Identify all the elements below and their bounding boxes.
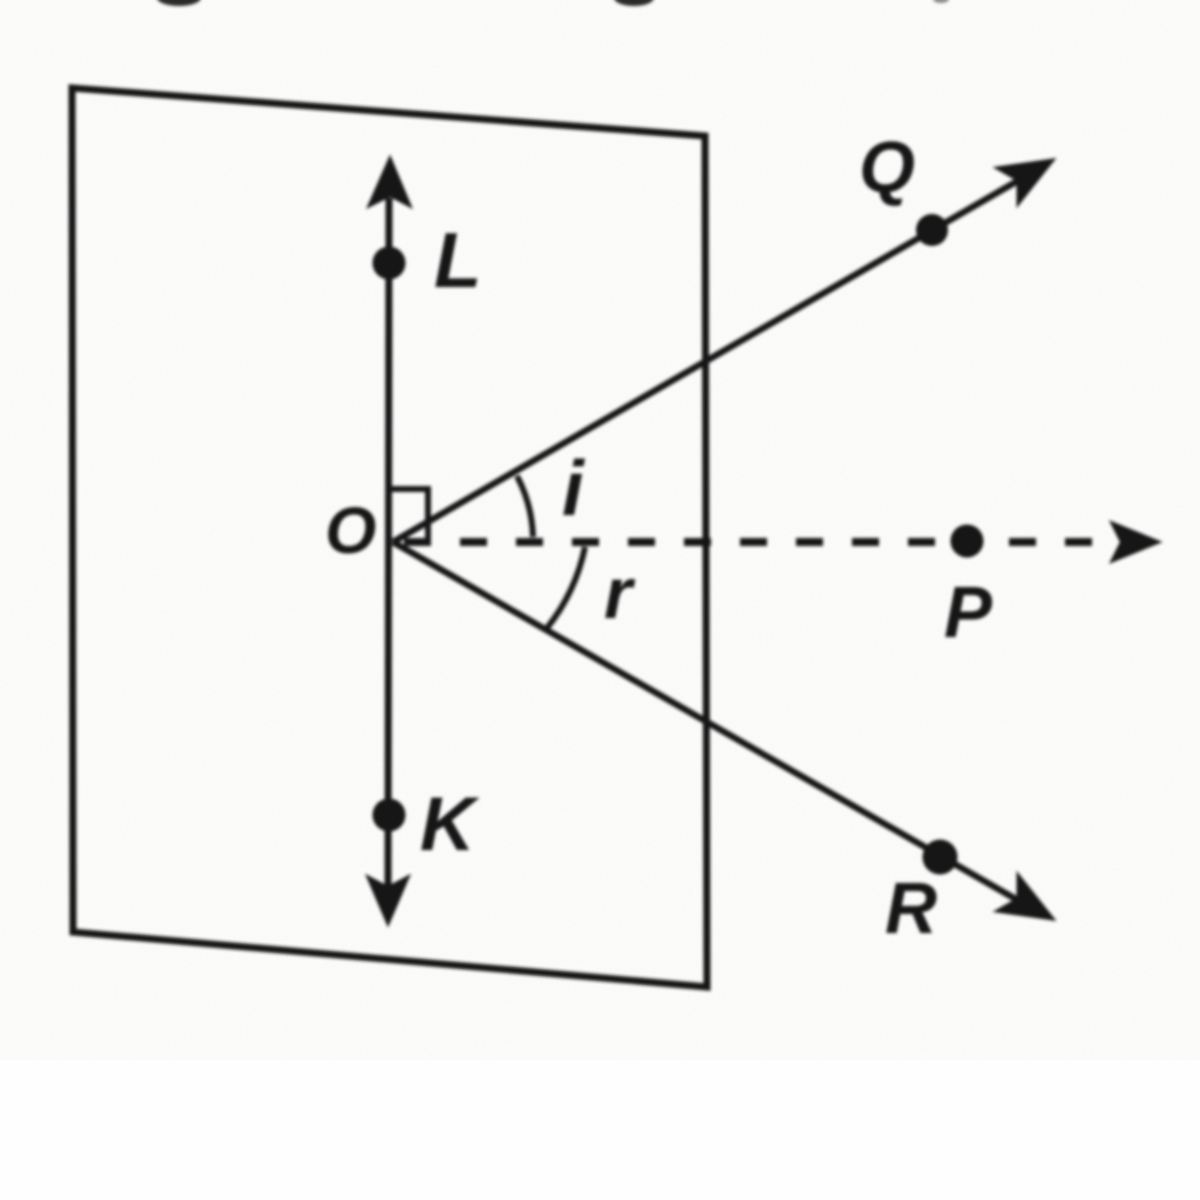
point P (dot on dashed ray) <box>951 525 984 558</box>
dashed ray towards P (normal direction continuation) <box>404 538 948 546</box>
point L (dot on normal) <box>373 247 406 280</box>
svg-text:L: L <box>434 216 482 304</box>
svg-text:r: r <box>604 554 636 634</box>
refracted ray towards R <box>393 542 1040 913</box>
svg-text:R: R <box>885 869 937 949</box>
normal arrowhead down <box>367 876 409 925</box>
point R (dot on ray) <box>923 840 958 875</box>
arrowhead of ray Q <box>997 160 1053 204</box>
normal arrowhead up <box>368 157 411 207</box>
top text remnant (comma of cropped line, right) <box>933 0 949 3</box>
svg-text:O: O <box>325 493 376 567</box>
svg-text:i: i <box>562 444 585 532</box>
plane mirror surface (parallelogram) <box>72 88 707 987</box>
svg-text:P: P <box>944 573 993 653</box>
point Q (dot on ray) <box>916 214 948 246</box>
dashed ray towards P (right of dot) <box>1009 538 1112 546</box>
arrowhead of dashed ray P <box>1111 522 1160 562</box>
normal line LK (vertical double-headed) <box>388 198 389 886</box>
angle arc i (between incident ray and dashed line) <box>517 476 533 537</box>
top text remnant (descender of cropped line, left) <box>157 0 201 6</box>
arrowhead of ray R <box>997 875 1053 919</box>
svg-text:Q: Q <box>859 128 915 208</box>
angle arc r (between dashed line and ray R) <box>547 547 585 628</box>
incident ray towards Q <box>393 168 1040 542</box>
top text remnant (descender of cropped line, middle) <box>614 0 654 6</box>
svg-text:K: K <box>420 782 480 867</box>
right-angle mark at O <box>391 489 428 544</box>
point K (dot on normal) <box>373 799 406 832</box>
